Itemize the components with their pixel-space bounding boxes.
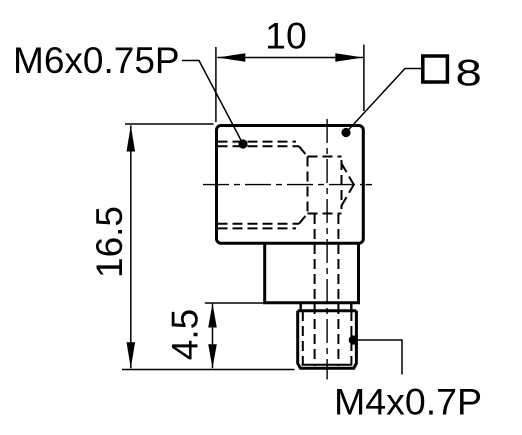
- hidden: vertical passage hole: [314, 214, 316, 366]
- hidden: M4 thread minor dia: [302, 311, 304, 365]
- dim 10 line: [217, 57, 363, 59]
- svg-text:10: 10: [265, 15, 307, 57]
- neck below body: [263, 244, 360, 303]
- arrows dim 16.5: [127, 126, 136, 152]
- svg-text:8: 8: [456, 52, 482, 94]
- hidden: drill cone: [341, 160, 343, 209]
- arrows dim 4.5: [208, 304, 217, 328]
- leader M4: [353, 340, 402, 375]
- leader square8: [346, 69, 422, 133]
- stud M4 outline: [298, 311, 357, 369]
- centerline horizontal: [203, 184, 364, 186]
- svg-text:4.5: 4.5: [165, 309, 206, 360]
- dim 16.5 line: [130, 126, 132, 369]
- body outline (square block 10 x 8): [217, 126, 364, 244]
- dim 16.5 extension lines: [122, 124, 295, 370]
- thread runout verticals: [301, 303, 352, 311]
- centerline vertical: [326, 119, 328, 380]
- stud thread runout line: [302, 364, 353, 366]
- hidden: M6 tapped hole thread lines: [218, 142, 354, 366]
- svg-text:M4x0.7P: M4x0.7P: [334, 381, 482, 423]
- leader M6: [182, 61, 243, 145]
- svg-text:M6x0.75P: M6x0.75P: [13, 40, 180, 81]
- svg-text:16.5: 16.5: [89, 206, 130, 278]
- dim 4.5 extension line: [205, 302, 264, 304]
- hidden: pilot hole: [307, 157, 309, 214]
- dim 10 extension lines: [216, 45, 364, 122]
- square symbol: [423, 56, 448, 82]
- dim 4.5 line: [212, 304, 214, 369]
- arrows dim 10: [217, 53, 245, 62]
- hidden: thread end chamfer diagonals: [299, 146, 308, 156]
